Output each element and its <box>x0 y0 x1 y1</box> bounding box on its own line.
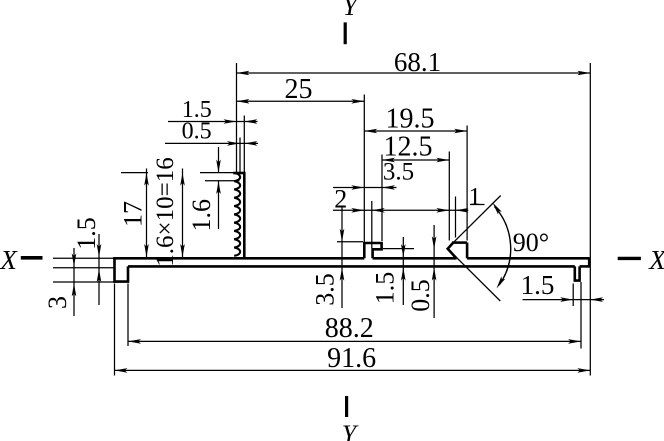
svg-text:1.5: 1.5 <box>371 272 400 305</box>
svg-text:19.5: 19.5 <box>386 104 435 135</box>
svg-text:X: X <box>0 245 18 275</box>
svg-text:88.2: 88.2 <box>325 313 374 344</box>
svg-text:Y: Y <box>343 0 360 21</box>
svg-text:91.6: 91.6 <box>327 343 376 374</box>
svg-text:0.5: 0.5 <box>406 279 435 312</box>
svg-text:2: 2 <box>334 184 347 213</box>
svg-text:3.5: 3.5 <box>383 159 414 186</box>
svg-text:1.5: 1.5 <box>521 270 555 300</box>
svg-text:3.5: 3.5 <box>311 273 340 306</box>
svg-text:1.6: 1.6 <box>187 199 216 232</box>
svg-text:68.1: 68.1 <box>394 47 441 77</box>
svg-text:0.5: 0.5 <box>182 119 212 145</box>
svg-text:3: 3 <box>43 296 72 309</box>
svg-text:Y: Y <box>342 420 359 441</box>
svg-text:17: 17 <box>119 201 148 227</box>
svg-text:25: 25 <box>285 74 313 105</box>
svg-text:90°: 90° <box>513 228 549 257</box>
svg-text:1: 1 <box>469 183 482 210</box>
svg-text:1.5: 1.5 <box>72 217 101 250</box>
svg-text:1.6×10=16: 1.6×10=16 <box>152 157 179 266</box>
svg-text:X: X <box>648 245 664 275</box>
